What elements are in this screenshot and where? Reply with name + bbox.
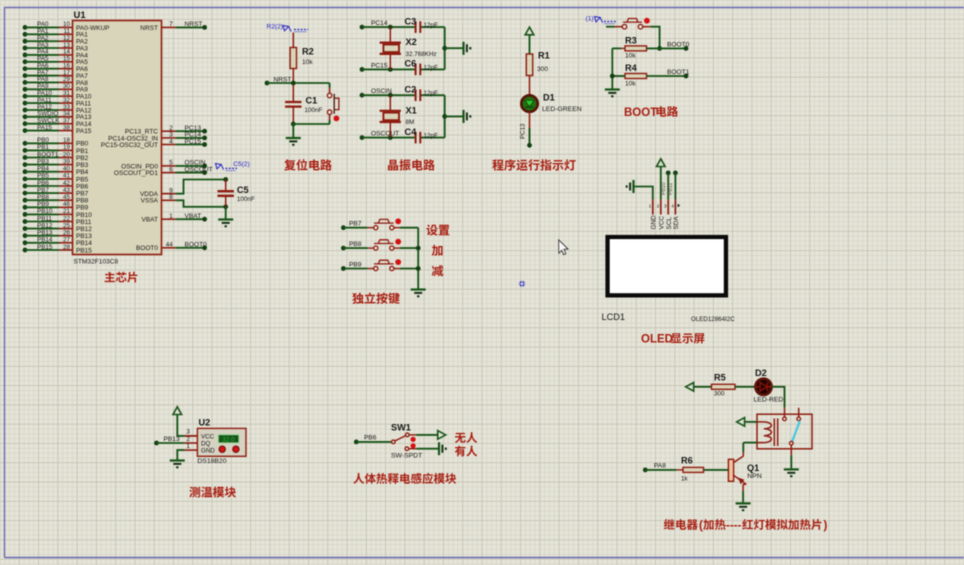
svg-text:3: 3 — [186, 429, 190, 436]
svg-text:PB1: PB1 — [76, 148, 89, 155]
svg-text:LED-GREEN: LED-GREEN — [542, 106, 582, 113]
svg-text:GND: GND — [201, 448, 215, 455]
svg-text:PB9: PB9 — [349, 262, 362, 269]
svg-text:PB4: PB4 — [76, 169, 89, 176]
svg-text:PB8: PB8 — [76, 198, 89, 205]
svg-text:OSCOUT: OSCOUT — [371, 131, 399, 138]
svg-text:20: 20 — [63, 151, 71, 158]
svg-text:PB14: PB14 — [76, 240, 92, 247]
svg-text:PB15: PB15 — [76, 247, 92, 254]
svg-text:NPN: NPN — [747, 473, 761, 480]
svg-text:C1: C1 — [306, 96, 318, 106]
svg-text:7: 7 — [169, 21, 173, 28]
svg-text:C2: C2 — [405, 84, 417, 94]
svg-text:PB8: PB8 — [37, 194, 49, 201]
svg-text:12pF: 12pF — [424, 64, 439, 71]
svg-text:10k: 10k — [625, 80, 636, 87]
svg-text:PC14: PC14 — [371, 20, 388, 27]
svg-text:PC15-OSC32_OUT: PC15-OSC32_OUT — [101, 142, 158, 149]
svg-text:C5(2): C5(2) — [233, 161, 250, 168]
svg-text:LED-RED: LED-RED — [754, 397, 784, 404]
svg-text:C6: C6 — [405, 59, 417, 69]
svg-text:VCC: VCC — [658, 216, 665, 230]
svg-text:PB14: PB14 — [37, 237, 53, 244]
svg-text:DS18B20: DS18B20 — [197, 458, 226, 465]
svg-text:GND: GND — [650, 215, 657, 230]
svg-text:PB7: PB7 — [76, 191, 89, 198]
svg-text:44: 44 — [166, 242, 174, 249]
svg-text:VCC: VCC — [201, 433, 215, 440]
svg-text:PB6: PB6 — [37, 180, 49, 187]
svg-text:28: 28 — [63, 244, 71, 251]
svg-text:D1: D1 — [543, 93, 555, 103]
svg-text:BOOT0: BOOT0 — [185, 242, 208, 249]
svg-text:SW1: SW1 — [391, 422, 411, 432]
svg-text:R6: R6 — [681, 455, 693, 465]
svg-text:PB7: PB7 — [37, 187, 49, 194]
svg-text:----: ---- — [726, 520, 741, 532]
svg-text:6: 6 — [169, 166, 173, 173]
svg-text:VBAT: VBAT — [142, 217, 159, 224]
svg-text:C4: C4 — [405, 127, 418, 137]
svg-text:STM32F103C8: STM32F103C8 — [74, 259, 119, 266]
svg-text:PB13: PB13 — [76, 233, 92, 240]
svg-text:PB9: PB9 — [37, 201, 49, 208]
svg-text:Q1: Q1 — [747, 463, 759, 473]
svg-text:PB10: PB10 — [661, 182, 667, 195]
svg-text:10k: 10k — [625, 53, 636, 60]
svg-text:40: 40 — [63, 166, 71, 173]
svg-text:BOOT0: BOOT0 — [136, 245, 158, 252]
svg-text:): ) — [824, 520, 828, 532]
svg-text:25: 25 — [63, 222, 71, 229]
svg-text:BOOT: BOOT — [624, 107, 657, 119]
svg-text:1: 1 — [649, 204, 652, 209]
svg-text:26: 26 — [63, 230, 71, 237]
svg-text:U2: U2 — [199, 418, 211, 428]
svg-text:PB11: PB11 — [76, 219, 92, 226]
svg-text:OLED12864I2C: OLED12864I2C — [691, 316, 735, 323]
svg-text:PA15: PA15 — [37, 124, 52, 131]
svg-text:VSSA: VSSA — [141, 198, 159, 205]
svg-text:100nF: 100nF — [305, 107, 323, 114]
svg-text:(1): (1) — [586, 15, 594, 22]
svg-text:PA15: PA15 — [76, 128, 92, 135]
svg-text:PC15: PC15 — [371, 62, 388, 69]
svg-text:NRST: NRST — [185, 21, 203, 28]
svg-text:PA8: PA8 — [654, 463, 666, 470]
svg-text:PB1: PB1 — [37, 144, 49, 151]
svg-text:R2: R2 — [302, 47, 314, 57]
svg-text:12pF: 12pF — [424, 90, 439, 97]
svg-text:300: 300 — [537, 66, 548, 73]
svg-text:41: 41 — [63, 173, 71, 180]
svg-text:PB11: PB11 — [37, 215, 52, 222]
svg-text:PB15: PB15 — [37, 244, 53, 251]
svg-text:OSCOUT: OSCOUT — [185, 166, 213, 173]
svg-text:21: 21 — [63, 208, 71, 215]
svg-text:32.0: 32.0 — [222, 437, 235, 444]
svg-text:PB6: PB6 — [76, 183, 89, 190]
svg-text:300: 300 — [714, 390, 725, 397]
svg-text:PC13: PC13 — [520, 123, 527, 139]
svg-text:22: 22 — [63, 215, 71, 222]
svg-text:R5: R5 — [714, 372, 726, 382]
svg-text:PB0: PB0 — [37, 137, 49, 144]
svg-text:4: 4 — [169, 138, 173, 145]
svg-text:1: 1 — [169, 213, 173, 220]
svg-text:R3: R3 — [625, 35, 637, 45]
svg-text:19: 19 — [63, 144, 71, 151]
svg-text:46: 46 — [63, 201, 71, 208]
svg-text:27: 27 — [63, 237, 71, 244]
svg-text:X2: X2 — [406, 37, 417, 47]
svg-text:8M: 8M — [406, 119, 415, 126]
svg-text:D2: D2 — [755, 368, 767, 378]
svg-text:PB9: PB9 — [76, 205, 89, 212]
svg-text:10k: 10k — [302, 59, 313, 66]
svg-text:12pF: 12pF — [424, 22, 439, 29]
svg-text:R2(2): R2(2) — [267, 23, 284, 30]
svg-text:PB12: PB12 — [76, 226, 92, 233]
svg-text:C3: C3 — [405, 16, 417, 26]
svg-text:100nF: 100nF — [237, 196, 255, 203]
svg-text:SCL: SCL — [666, 217, 673, 230]
svg-text:PB0: PB0 — [76, 141, 89, 148]
svg-text:PB2: PB2 — [76, 155, 89, 162]
svg-text:PB12: PB12 — [37, 222, 53, 229]
svg-text:C5: C5 — [237, 185, 249, 195]
svg-text:8: 8 — [169, 194, 173, 201]
svg-text:PB7: PB7 — [349, 221, 362, 228]
svg-text:PB3: PB3 — [37, 158, 49, 165]
svg-text:OSCOUT_PD1: OSCOUT_PD1 — [114, 170, 158, 177]
svg-text:NRST: NRST — [140, 25, 158, 32]
svg-text:PB5: PB5 — [37, 173, 49, 180]
svg-text:VBAT: VBAT — [185, 213, 202, 220]
svg-text:PB10: PB10 — [76, 212, 92, 219]
svg-text:1k: 1k — [681, 475, 689, 482]
svg-text:PB8: PB8 — [349, 241, 362, 248]
svg-text:4: 4 — [671, 204, 674, 209]
svg-text:42: 42 — [63, 180, 71, 187]
svg-text:12pF: 12pF — [424, 133, 439, 140]
svg-text:PB5: PB5 — [76, 176, 89, 183]
svg-text:PB13: PB13 — [37, 230, 53, 237]
svg-text:PB10: PB10 — [37, 208, 53, 215]
svg-text:(: ( — [699, 520, 703, 532]
svg-text:R1: R1 — [538, 51, 550, 61]
svg-text:U1: U1 — [74, 10, 87, 21]
svg-text:3: 3 — [664, 204, 667, 209]
svg-text:38: 38 — [63, 124, 71, 131]
svg-text:32.768KHz: 32.768KHz — [406, 51, 437, 58]
svg-text:PB6: PB6 — [364, 435, 377, 442]
svg-text:2: 2 — [657, 204, 660, 209]
svg-text:DQ: DQ — [201, 441, 210, 448]
svg-text:PB11: PB11 — [668, 183, 674, 195]
svg-text:BOOT1: BOOT1 — [37, 151, 59, 158]
svg-text:PB4: PB4 — [37, 166, 49, 173]
svg-text:39: 39 — [63, 158, 71, 165]
svg-text:45: 45 — [63, 194, 71, 201]
svg-text:PB3: PB3 — [76, 162, 89, 169]
svg-text:43: 43 — [63, 187, 71, 194]
svg-text:SDA: SDA — [673, 216, 680, 230]
svg-text:1: 1 — [186, 443, 190, 450]
svg-text:PB13: PB13 — [164, 436, 180, 443]
svg-text:2: 2 — [186, 436, 190, 443]
svg-text:X1: X1 — [406, 105, 417, 115]
svg-text:LCD1: LCD1 — [602, 312, 626, 322]
svg-text:PC15: PC15 — [185, 138, 202, 145]
svg-text:18: 18 — [63, 137, 71, 144]
svg-text:OLED: OLED — [641, 334, 673, 346]
svg-text:R4: R4 — [625, 63, 638, 73]
svg-text:SW-SPDT: SW-SPDT — [391, 453, 422, 460]
